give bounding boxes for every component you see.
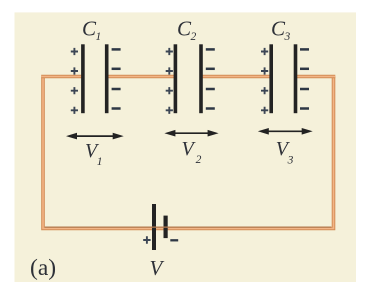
wire top segment 1	[41, 75, 84, 79]
svg-text:V: V	[150, 256, 165, 280]
wire top segment 3	[200, 75, 272, 79]
wire top segment 2	[106, 75, 176, 79]
capacitor C3 minus signs	[300, 49, 309, 108]
arrow V2 span	[164, 130, 218, 137]
capacitor C1 plates	[81, 44, 108, 113]
svg-text:2: 2	[191, 31, 197, 43]
capacitor C1 plus signs	[71, 48, 78, 114]
capacitor C2 minus signs	[206, 49, 215, 108]
svg-text:2: 2	[196, 154, 202, 166]
battery B1 long plate	[152, 204, 156, 250]
svg-text:3: 3	[284, 31, 291, 43]
battery plus sign	[143, 236, 150, 243]
capacitor C2 plates	[174, 44, 203, 113]
battery minus sign	[170, 239, 178, 241]
capacitor C3 plus signs	[261, 48, 268, 114]
arrow V1 span	[66, 133, 124, 140]
battery B1 short plate	[164, 216, 168, 239]
arrow V3 span	[258, 128, 313, 135]
capacitor C2 plus signs	[166, 48, 173, 114]
svg-text:3: 3	[287, 155, 294, 167]
capacitor C3 plates	[269, 44, 297, 113]
capacitor C1 minus signs	[112, 49, 121, 108]
svg-text:1: 1	[96, 31, 102, 43]
wire bottom shade	[45, 226, 331, 228]
svg-text:(a): (a)	[30, 255, 56, 281]
wire top segment 4	[295, 75, 336, 79]
svg-text:1: 1	[97, 156, 103, 168]
wire left/bottom/right loop	[43, 77, 334, 229]
